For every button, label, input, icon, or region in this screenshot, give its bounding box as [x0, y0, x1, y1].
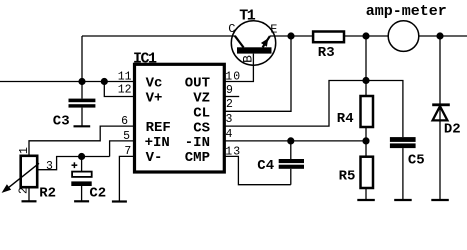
svg-text:R3: R3 [318, 45, 335, 61]
svg-text:2: 2 [17, 187, 30, 194]
wire input line left to IC pin 11 [0, 81, 135, 83]
node junction dot R3/meter/R4 [362, 32, 369, 39]
svg-text:CL: CL [193, 106, 210, 122]
potentiometer R2 [2, 156, 39, 202]
resistor R4 [361, 96, 374, 127]
svg-text:+IN: +IN [145, 135, 170, 151]
capacitor C5 [390, 137, 416, 200]
svg-text:C3: C3 [53, 113, 70, 129]
svg-text:1: 1 [18, 147, 31, 154]
base bar [237, 47, 272, 53]
svg-text:T1: T1 [239, 7, 256, 24]
svg-text:C5: C5 [408, 153, 425, 169]
ground under R2 [22, 200, 37, 202]
emitter lead diagonal with arrow [263, 36, 270, 47]
amp-meter M1 [388, 21, 419, 52]
ground under C5 [394, 199, 412, 201]
wire R5 top lead [365, 141, 367, 157]
svg-text:OUT: OUT [185, 75, 210, 91]
node junction dot pin12 branch [101, 78, 108, 85]
transistor T1 [224, 21, 275, 82]
IC op-amp regulator IC1 box [135, 64, 225, 172]
svg-text:C4: C4 [257, 158, 274, 174]
wire emitter node down to pin 2 [224, 36, 291, 111]
wire pin 7 down [119, 156, 134, 201]
svg-text:9: 9 [226, 84, 233, 97]
svg-text:C: C [228, 22, 235, 36]
svg-text:3: 3 [46, 160, 53, 173]
wire wiper line R2 to C2 node [37, 157, 109, 170]
svg-text:REF: REF [146, 120, 171, 136]
node junction dot emitter [287, 32, 294, 39]
svg-text:11: 11 [118, 71, 132, 84]
svg-text:12: 12 [118, 84, 132, 97]
svg-text:2: 2 [226, 98, 233, 111]
ground under R5 [357, 199, 375, 201]
svg-text:3: 3 [226, 113, 233, 126]
wire pin 3 to R4 top node [224, 81, 366, 127]
wire R5 bottom lead [365, 188, 367, 200]
capacitor C3 [69, 82, 96, 127]
node junction dot C3/riser [78, 78, 85, 85]
ground under D2 [431, 199, 449, 201]
wire R4 top node to C5 [366, 81, 403, 138]
node junction dot C2 top [78, 153, 85, 160]
svg-text:R5: R5 [339, 169, 356, 185]
node junction dot C4 top [287, 137, 294, 144]
wire R3 to meter [344, 35, 388, 37]
wire vertical riser to top rail [81, 36, 83, 82]
wire C4 bottom to pin 13 [224, 156, 290, 184]
base wire down to pin 10 [224, 54, 253, 82]
wire emitter to R3 [270, 35, 313, 37]
svg-text:E: E [270, 23, 277, 37]
wire R4 chain vertical from top rail [365, 36, 367, 96]
svg-text:amp-meter: amp-meter [366, 3, 447, 20]
svg-text:4: 4 [226, 128, 233, 141]
node junction dot meter/D2 [436, 32, 443, 39]
ground under pin 7 [112, 200, 127, 202]
resistor R3 [313, 32, 344, 43]
svg-text:VZ: VZ [193, 90, 210, 106]
collector lead diagonal [235, 36, 244, 48]
wire R4 bottom to node [365, 127, 367, 141]
wire top rail to transistor collector [82, 35, 235, 37]
wire pin 6 to R2 top [29, 126, 135, 156]
resistor R5 [361, 157, 374, 188]
ground under C3 [74, 125, 91, 127]
svg-text:IC1: IC1 [133, 51, 157, 68]
capacitor C4 [279, 141, 304, 185]
svg-text:V-: V- [146, 150, 163, 166]
svg-text:R4: R4 [337, 111, 354, 127]
wire pin 4 line [224, 140, 366, 142]
svg-text:CMP: CMP [185, 150, 210, 166]
svg-text:R2: R2 [39, 185, 56, 201]
wire pin 12 branch [104, 82, 134, 97]
node junction dot R4 top [362, 77, 369, 84]
svg-text:B: B [240, 55, 255, 63]
plus sign C2 [72, 162, 78, 168]
svg-text:C2: C2 [89, 185, 106, 201]
wire pin 9 stub [224, 96, 239, 98]
wire pin 5 to wiper node [110, 141, 135, 157]
wire meter to right edge [419, 35, 467, 37]
svg-text:D2: D2 [444, 122, 461, 138]
node junction dot R4/R5/pin4 [362, 137, 369, 144]
svg-text:-IN: -IN [185, 135, 210, 151]
svg-text:V+: V+ [146, 90, 163, 106]
capacitor C2 polarized [71, 157, 91, 202]
ground under C2 [74, 200, 89, 202]
svg-text:Vc: Vc [146, 75, 163, 91]
zener diode D2 [432, 36, 450, 200]
